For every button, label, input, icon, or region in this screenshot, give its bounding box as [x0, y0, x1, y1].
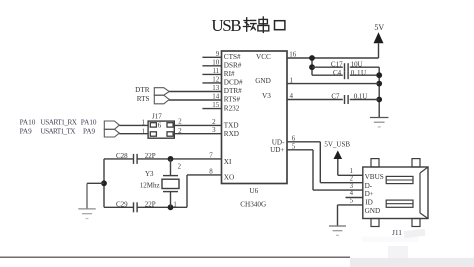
svg-text:XO: XO: [224, 174, 234, 182]
svg-text:2: 2: [178, 128, 182, 135]
svg-text:RTS#: RTS#: [224, 96, 241, 104]
svg-text:1: 1: [141, 128, 144, 135]
svg-text:D-: D-: [365, 182, 373, 190]
svg-text:UD-: UD-: [272, 138, 285, 146]
svg-text:5V_USB: 5V_USB: [324, 140, 350, 148]
svg-text:2: 2: [212, 118, 216, 126]
svg-text:0.1U: 0.1U: [351, 69, 366, 77]
svg-text:9: 9: [216, 50, 220, 58]
svg-text:C17: C17: [331, 60, 343, 68]
svg-text:DCD#: DCD#: [224, 79, 243, 87]
svg-text:D+: D+: [365, 190, 374, 198]
svg-text:C28: C28: [116, 152, 128, 160]
svg-text:CTS#: CTS#: [224, 53, 241, 61]
svg-text:V3: V3: [262, 92, 271, 100]
svg-text:1: 1: [141, 119, 144, 126]
svg-text:VCC: VCC: [256, 53, 271, 61]
svg-text:GND: GND: [255, 77, 271, 85]
svg-text:VBUS: VBUS: [365, 173, 384, 181]
svg-text:12Mhz: 12Mhz: [140, 181, 160, 189]
svg-text:J11: J11: [392, 228, 402, 237]
svg-text:XI: XI: [224, 158, 232, 166]
svg-text:TXD: TXD: [224, 122, 239, 130]
svg-text:0.1U: 0.1U: [354, 92, 368, 100]
svg-text:PA10: PA10: [81, 119, 97, 127]
svg-text:2: 2: [350, 175, 354, 182]
svg-text:PA10: PA10: [20, 119, 36, 127]
svg-text:1: 1: [350, 168, 353, 175]
svg-text:GND: GND: [365, 207, 381, 215]
svg-text:UD+: UD+: [270, 146, 284, 154]
svg-text:10U: 10U: [351, 60, 363, 68]
svg-text:DTR: DTR: [135, 86, 150, 94]
svg-text:DSR#: DSR#: [224, 62, 242, 70]
svg-text:PA9: PA9: [83, 128, 96, 136]
svg-text:15: 15: [212, 101, 220, 109]
svg-text:ID: ID: [365, 199, 373, 207]
svg-text:2: 2: [178, 163, 182, 170]
svg-text:USART1_TX: USART1_TX: [41, 128, 77, 136]
svg-text:CH340G: CH340G: [240, 201, 266, 209]
svg-text:USB: USB: [211, 16, 241, 35]
svg-text:14: 14: [212, 93, 220, 101]
svg-text:5: 5: [350, 198, 354, 205]
svg-text:RTS: RTS: [137, 95, 150, 103]
svg-text:2: 2: [178, 119, 182, 126]
svg-text:DTR#: DTR#: [224, 87, 242, 95]
svg-text:Y3: Y3: [145, 170, 154, 178]
svg-text:C7: C7: [331, 93, 340, 101]
svg-text:5V: 5V: [374, 23, 384, 32]
svg-text:C29: C29: [116, 201, 128, 209]
svg-text:3: 3: [212, 126, 216, 134]
svg-text:C4: C4: [333, 69, 342, 77]
svg-text:22P: 22P: [145, 201, 156, 209]
svg-text:J17: J17: [152, 112, 162, 120]
svg-text:U6: U6: [249, 187, 258, 195]
svg-text:USART1_RX: USART1_RX: [41, 119, 78, 127]
svg-text:4: 4: [350, 190, 354, 197]
svg-text:RI#: RI#: [224, 70, 235, 78]
svg-text:13: 13: [212, 84, 220, 92]
svg-text:12: 12: [212, 76, 220, 84]
svg-text:22P: 22P: [145, 152, 156, 160]
svg-text:11: 11: [212, 67, 219, 75]
svg-text:PA9: PA9: [20, 128, 33, 136]
svg-text:10: 10: [212, 58, 220, 66]
svg-text:R232: R232: [224, 104, 240, 112]
svg-text:RXD: RXD: [224, 130, 239, 138]
svg-text:1: 1: [173, 201, 176, 208]
svg-text:6: 6: [158, 122, 162, 130]
svg-text:3: 3: [350, 183, 354, 190]
